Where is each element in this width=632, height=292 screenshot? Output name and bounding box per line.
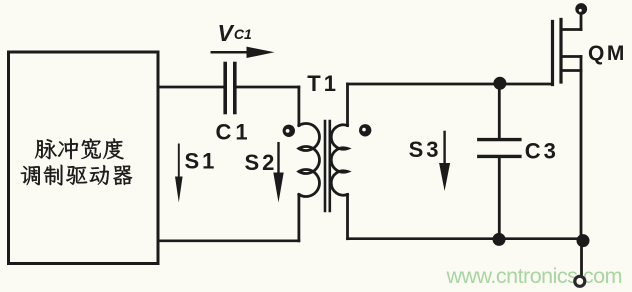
wire: secondary top lead up [346,84,349,126]
arrow S3 [439,131,450,191]
junction node: source / bottom rail [577,234,590,247]
transformer T1 core line right [328,121,331,211]
transformer T1 secondary winding [331,125,347,195]
drain terminal dot [575,3,587,15]
transformer T1 primary winding [299,124,320,197]
wire: secondary bottom rail [348,237,584,240]
junction node: gate rail / C3 top [493,77,506,90]
svg-text:www.cntronics.com: www.cntronics.com [446,264,623,288]
capacitor C1 left plate [223,64,227,113]
arrow VC1 [211,47,275,58]
transistor QM channel line [559,20,562,83]
svg-text:QM: QM [588,42,627,65]
wire: box to C1 left plate (top) [158,86,223,89]
svg-text:T1: T1 [307,71,339,96]
svg-text:S2: S2 [245,150,278,175]
transistor QM gate line [551,22,554,85]
capacitor C3 top plate [479,138,520,141]
PWM driver box [9,52,159,264]
svg-text:S3: S3 [409,137,442,162]
transistor QM source stub [561,69,581,72]
wire: C3 top lead [498,84,501,138]
secondary phase dot [359,124,371,136]
transistor QM middle stub [561,55,581,58]
junction node: C3 bottom / bottom rail [493,233,506,246]
wire: QM drain up to terminal [580,14,583,30]
primary phase dot [283,125,295,137]
svg-text:C3: C3 [525,139,559,164]
wire: C1 right plate to transformer primary top [237,86,299,89]
svg-text:S1: S1 [185,149,218,174]
wire: C3 bottom lead [498,158,501,238]
wire: secondary bottom lead down [346,195,349,239]
wire: transformer primary bottom lead down [297,195,300,241]
source output terminal [575,276,585,286]
wire: transformer primary top lead down [297,87,300,126]
transformer T1 core line left [324,121,327,211]
wire: secondary top rail to QM gate [348,83,553,86]
wire: QM source down to bottom rail [580,57,583,277]
arrow S2 [273,142,283,203]
svg-text:C1: C1 [216,120,252,145]
arrow S1 [175,144,183,203]
capacitor C3 bottom plate [479,155,520,158]
transistor QM drain stub [561,28,581,31]
capacitor C1 right plate [233,64,237,113]
box label text 脉冲宽度调制驱动器 [21,138,133,185]
wire: primary bottom return to box [158,239,299,242]
